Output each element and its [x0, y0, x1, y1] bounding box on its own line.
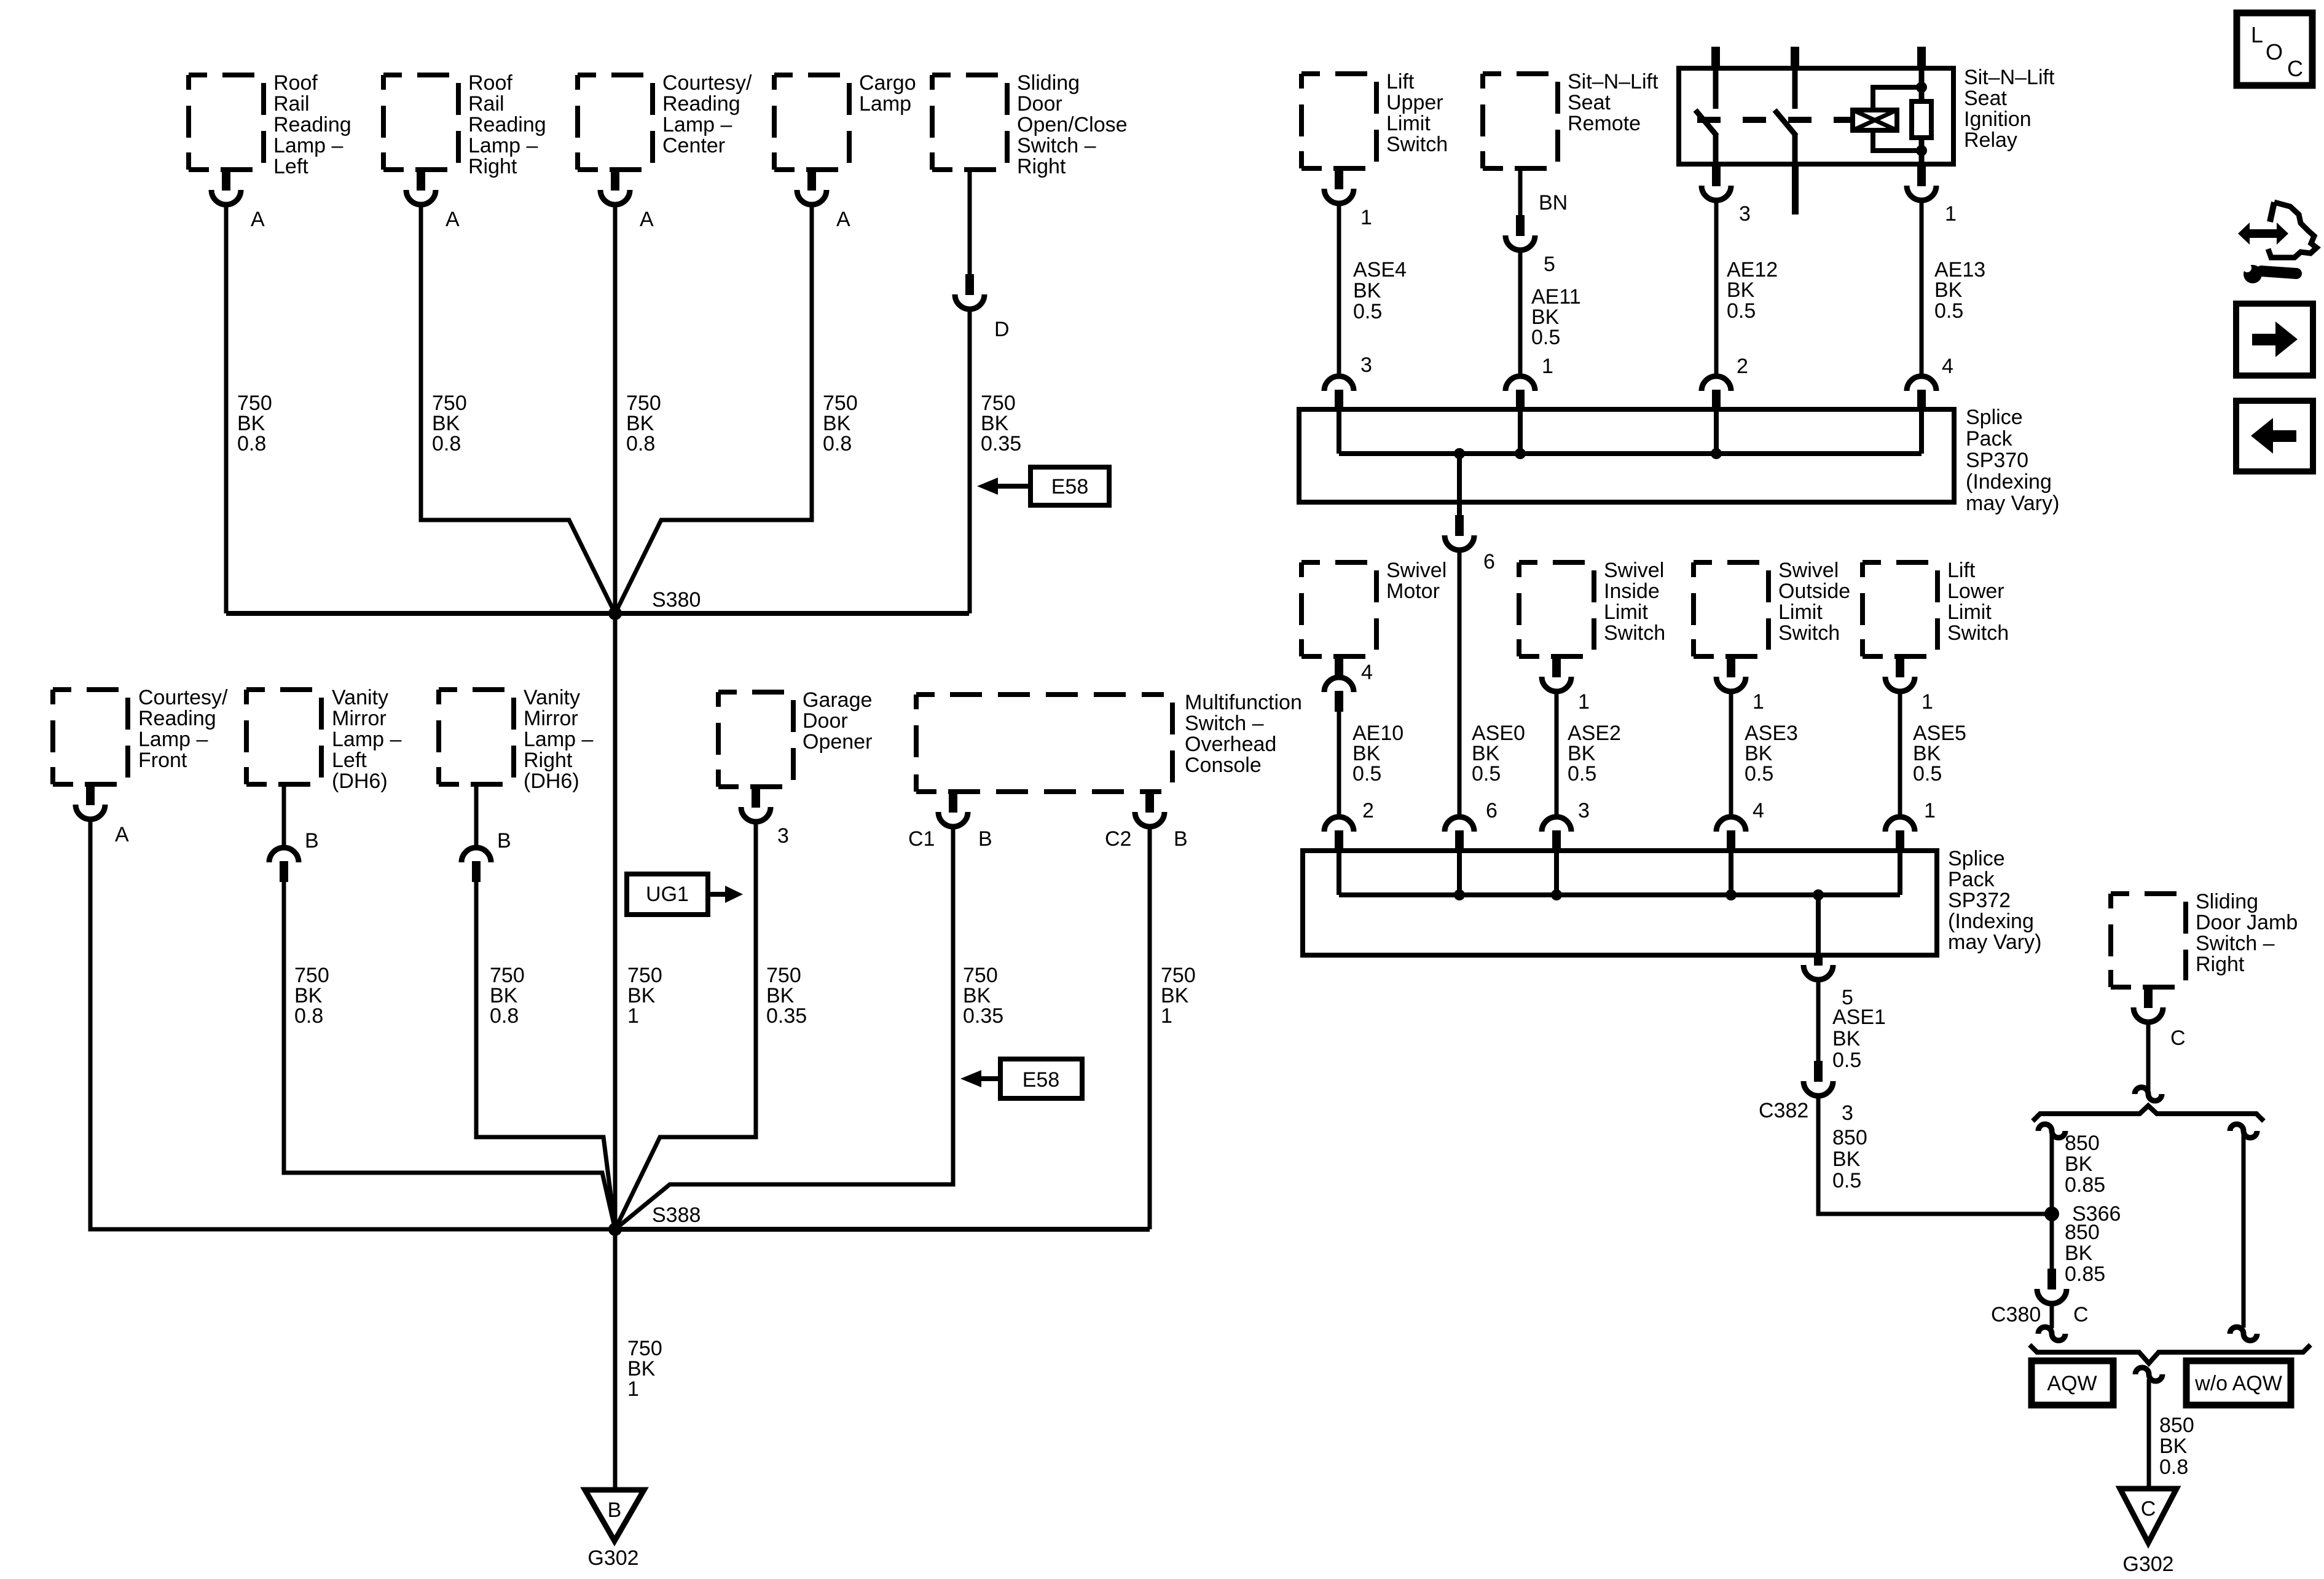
SP370 bus junction (output): [1454, 448, 1465, 459]
splice junction S388: [608, 1223, 622, 1236]
icon: wrench: [2244, 265, 2262, 283]
svg-text:BK: BK: [1934, 278, 1963, 302]
svg-text:Right: Right: [468, 155, 517, 178]
svg-text:Splice: Splice: [1948, 847, 2005, 870]
inline connector pin 5 on seat remote wire: [1516, 215, 1525, 236]
svg-text:C: C: [2141, 1497, 2156, 1521]
SP372 internal wire cavity 4: [1729, 851, 1733, 895]
svg-text:3: 3: [1360, 353, 1372, 377]
callout box E58 (top): [1030, 467, 1109, 505]
svg-text:Switch –: Switch –: [2196, 932, 2275, 955]
svg-text:850: 850: [2065, 1221, 2100, 1244]
svg-text:Overhead: Overhead: [1185, 733, 1276, 756]
svg-text:Seat: Seat: [1964, 87, 2007, 110]
svg-text:Right: Right: [2196, 953, 2245, 976]
svg-text:Door Jamb: Door Jamb: [2196, 911, 2298, 934]
wire 750 BK 0.8 from lamp right to S380: [421, 205, 615, 613]
wire ASE4 BK 0.5 from lift upper switch to SP370: [1337, 203, 1341, 376]
SP370 internal wire from cavity 4: [1919, 409, 1924, 454]
splice pack connector cavity 3 (ASE4 into SP370): [1324, 376, 1354, 391]
wire 750 BK 0.8 from lamp left down to S380 bus: [224, 205, 229, 613]
wire 850 BK 0.8 to ground G302: [2147, 1379, 2151, 1489]
svg-text:(Indexing: (Indexing: [1966, 470, 2052, 494]
wire 750 BK 0.35 from garage door opener to S388: [615, 822, 756, 1229]
svg-text:Switch –: Switch –: [1185, 712, 1264, 735]
bottom curly brace (wiring alternatives): [2030, 1345, 2310, 1363]
svg-text:Roof: Roof: [468, 71, 512, 95]
wire from vanity mirror lamp left to connector B: [282, 784, 286, 848]
connector pin 1 of Lift Upper Limit Switch: [1335, 168, 1343, 189]
svg-text:1: 1: [1578, 690, 1590, 714]
svg-text:C382: C382: [1759, 1099, 1808, 1122]
svg-text:1: 1: [1924, 799, 1936, 822]
svg-text:4: 4: [1361, 661, 1373, 684]
svg-text:BK: BK: [2159, 1435, 2188, 1458]
svg-text:Lamp –: Lamp –: [468, 134, 538, 157]
wire 750 BK 1 from C2 down to S388 bus: [1148, 827, 1152, 1229]
svg-text:B: B: [608, 1498, 622, 1522]
inline connector C382 pin 3: [1814, 1061, 1823, 1082]
svg-text:ASE1: ASE1: [1832, 1006, 1886, 1029]
svg-text:Mirror: Mirror: [332, 707, 387, 730]
svg-text:Motor: Motor: [1386, 580, 1440, 603]
svg-text:O: O: [2266, 39, 2283, 65]
svg-text:Lamp: Lamp: [859, 92, 911, 116]
callout arrow from UG1: [708, 892, 725, 897]
svg-text:Seat: Seat: [1568, 91, 1611, 114]
svg-text:B: B: [978, 827, 992, 851]
svg-text:Relay: Relay: [1964, 128, 2017, 152]
connector pin A of Roof Rail Reading Lamp - Right: [417, 170, 425, 191]
svg-text:Rail: Rail: [468, 92, 504, 116]
svg-text:0.35: 0.35: [963, 1004, 1003, 1028]
wire 750 BK 0.8 from vanity right connector to S388: [476, 882, 615, 1229]
relay connector pin 1: [1917, 165, 1926, 186]
svg-text:Left: Left: [332, 749, 367, 772]
svg-text:Switch: Switch: [1386, 133, 1448, 156]
wire AE10 BK 0.5 from swivel motor to SP372: [1337, 712, 1341, 817]
component box: Courtesy/Reading Lamp - Center: [578, 75, 653, 170]
component box: Multifunction Switch - Overhead Console: [916, 695, 1172, 792]
svg-text:(Indexing: (Indexing: [1948, 910, 2034, 933]
svg-text:1: 1: [627, 1377, 639, 1401]
svg-text:may Vary): may Vary): [1966, 492, 2059, 515]
connector pin 4 of Swivel Motor: [1335, 656, 1343, 679]
svg-text:1: 1: [1753, 690, 1764, 714]
wire AE13 BK 0.5 from relay pin 1 to SP370: [1920, 200, 1924, 376]
svg-text:Reading: Reading: [662, 92, 740, 116]
svg-text:Right: Right: [524, 749, 573, 772]
component box: Sit-N-Lift Seat Remote: [1483, 74, 1558, 168]
svg-text:1: 1: [1161, 1004, 1172, 1028]
svg-text:C: C: [2170, 1026, 2186, 1050]
connector pin A of Cargo Lamp: [807, 170, 816, 191]
relay switch contact 2: [1792, 68, 1798, 109]
svg-text:Vanity: Vanity: [524, 686, 580, 709]
inline connector pin 4 (swivel motor): [1324, 677, 1354, 692]
svg-text:A: A: [640, 208, 654, 231]
connector pin A of Roof Rail Reading Lamp - Left: [222, 170, 230, 191]
component box: Sliding Door Open/Close Switch - Right: [932, 75, 1007, 170]
svg-text:0.5: 0.5: [1745, 762, 1773, 786]
relay solenoid coil (crossed box): [1853, 110, 1897, 130]
svg-text:Upper: Upper: [1386, 91, 1443, 114]
svg-text:SP372: SP372: [1948, 889, 2011, 912]
svg-text:Splice: Splice: [1966, 406, 2023, 429]
svg-text:Sliding: Sliding: [2196, 890, 2258, 913]
svg-text:Switch: Switch: [1947, 621, 2009, 645]
SP370 internal bus: [1339, 451, 1922, 456]
wire start hook (below bottom brace): [2135, 1368, 2162, 1381]
svg-text:E58: E58: [1023, 1068, 1060, 1092]
svg-text:1: 1: [1542, 355, 1553, 378]
svg-text:5: 5: [1544, 253, 1555, 276]
icon box: arrow right (continued on next page): [2236, 304, 2313, 376]
connector pin 1 of Swivel Outside Limit Switch: [1727, 656, 1735, 677]
wire right branch (w/o AQW path): [2242, 1135, 2246, 1328]
svg-text:0.35: 0.35: [981, 432, 1021, 455]
svg-text:BK: BK: [2065, 1242, 2093, 1265]
callout arrow to E58 (bottom): [960, 1070, 981, 1087]
SP372 internal bus: [1339, 892, 1900, 897]
svg-text:Switch –: Switch –: [1017, 134, 1096, 157]
svg-text:2: 2: [1737, 355, 1748, 378]
wire from jamb switch connector down to brace: [2146, 1022, 2151, 1090]
relay pin stubs below box / middle pin: [1792, 164, 1799, 215]
relay coil wiring links: [1873, 87, 1922, 110]
wire from vanity mirror lamp right to connector B: [474, 784, 479, 848]
svg-text:G302: G302: [587, 1546, 638, 1570]
svg-text:0.8: 0.8: [490, 1004, 519, 1028]
svg-text:Swivel: Swivel: [1604, 559, 1664, 582]
svg-text:0.5: 0.5: [1934, 299, 1963, 323]
svg-text:BN: BN: [1539, 191, 1568, 215]
svg-text:Courtesy/: Courtesy/: [662, 71, 752, 95]
svg-text:A: A: [251, 208, 265, 231]
splice pack connector cavity 3 (ASE2 into SP372): [1542, 817, 1571, 832]
component box: Roof Rail Reading Lamp - Left: [189, 75, 264, 170]
svg-text:850: 850: [2065, 1132, 2100, 1155]
component box: Vanity Mirror Lamp - Right (DH6): [439, 690, 514, 784]
component box: Cargo Lamp: [774, 75, 849, 170]
svg-text:Lamp –: Lamp –: [332, 728, 401, 751]
component box: Roof Rail Reading Lamp - Right: [383, 75, 458, 170]
svg-text:1: 1: [1360, 206, 1372, 229]
svg-text:Lift: Lift: [1947, 559, 1976, 582]
splice junction S366: [2044, 1207, 2059, 1221]
callout box E58 (bottom): [1000, 1059, 1082, 1098]
svg-text:Reading: Reading: [138, 707, 216, 730]
svg-text:0.8: 0.8: [823, 432, 852, 455]
ground symbol G302 (left): [585, 1490, 644, 1541]
connector pin C of Sliding Door Jamb Switch: [2144, 987, 2153, 1008]
svg-text:C: C: [2287, 56, 2303, 81]
svg-text:Door: Door: [803, 709, 848, 733]
svg-text:S380: S380: [652, 588, 701, 612]
wire 750 BK 0.35 from C1 to S388: [615, 827, 953, 1229]
svg-text:Right: Right: [1017, 155, 1066, 178]
svg-text:4: 4: [1942, 355, 1953, 378]
component box: Swivel Inside Limit Switch: [1519, 562, 1594, 656]
svg-text:Multifunction: Multifunction: [1185, 691, 1302, 714]
ground symbol G302 (right): [2120, 1489, 2177, 1543]
svg-text:Limit: Limit: [1604, 600, 1648, 624]
svg-text:2: 2: [1362, 799, 1374, 822]
svg-text:0.8: 0.8: [626, 432, 655, 455]
svg-text:0.5: 0.5: [1727, 299, 1756, 323]
SP370 output wire to cavity 6: [1457, 454, 1462, 515]
wire AE12 BK 0.5 from relay pin 3 to SP370: [1714, 200, 1719, 376]
svg-text:Ignition: Ignition: [1964, 108, 2032, 131]
relay mechanical linkage (dashed): [1697, 117, 1853, 123]
svg-text:Courtesy/: Courtesy/: [138, 686, 228, 709]
component box: Swivel Motor: [1301, 562, 1376, 656]
wire 750 BK 0.8 from cargo lamp to S380: [615, 205, 812, 613]
wire from front lamp connector to S388 junction: [90, 818, 615, 1229]
svg-text:BK: BK: [1727, 278, 1755, 302]
wire start hook (left branch): [2038, 1124, 2065, 1138]
svg-text:G302: G302: [2122, 1553, 2173, 1576]
trunk wire 750 BK 1 from S380 to S388: [613, 613, 618, 1229]
svg-text:Inside: Inside: [1604, 580, 1660, 603]
component box: Swivel Outside Limit Switch: [1694, 562, 1769, 656]
wire AE11 BK 0.5 from seat remote to SP370: [1518, 250, 1523, 376]
svg-text:1: 1: [1922, 690, 1933, 714]
wire ASE5 BK 0.5 from lift lower switch to SP372: [1898, 691, 1902, 817]
svg-text:UG1: UG1: [646, 883, 689, 906]
svg-text:0.8: 0.8: [432, 432, 461, 455]
SP370 bus junction (cavity 1): [1515, 448, 1526, 459]
svg-text:Swivel: Swivel: [1386, 559, 1447, 582]
SP370 internal wire from cavity 3: [1337, 409, 1341, 454]
SP370 output connector cavity 6: [1455, 515, 1464, 536]
svg-text:S388: S388: [652, 1203, 701, 1227]
svg-text:A: A: [115, 823, 129, 846]
svg-text:Remote: Remote: [1568, 112, 1641, 135]
wire ASE2 BK 0.5 from swivel inside switch to SP372: [1555, 691, 1559, 817]
wire from C380 to bottom brace: [2050, 1304, 2054, 1328]
callout arrow to E58 (top): [977, 478, 998, 495]
svg-text:Swivel: Swivel: [1778, 559, 1839, 582]
svg-text:Open/Close: Open/Close: [1017, 113, 1128, 136]
svg-text:B: B: [497, 829, 511, 853]
trunk wire 750 BK 1 from S388 to ground G302: [613, 1229, 618, 1490]
SP372 bus junction (cavity 6): [1454, 889, 1465, 900]
svg-text:0.5: 0.5: [1353, 300, 1382, 323]
wire start hook (right branch): [2230, 1124, 2257, 1138]
wire 850 BK 0.5 from C382 to S366: [1818, 1096, 2052, 1214]
inline connector B on vanity right wire: [461, 848, 491, 862]
component box: Sliding Door Jamb Switch - Right: [2111, 894, 2186, 987]
connector pin 1 of Swivel Inside Limit Switch: [1552, 656, 1561, 677]
splice pack connector cavity 6 (ASE0 into SP372): [1445, 817, 1474, 832]
component box: Sit-N-Lift Seat Ignition Relay: [1679, 68, 1953, 164]
svg-text:A: A: [836, 208, 850, 231]
svg-text:C1: C1: [908, 827, 935, 851]
svg-text:Garage: Garage: [803, 688, 872, 712]
connector pin 3 of Garage Door Opener: [752, 787, 760, 808]
splice junction S380: [608, 607, 622, 620]
wire ASE1 BK 0.5 from SP372 to C382: [1816, 980, 1821, 1061]
svg-text:BK: BK: [1832, 1148, 1861, 1171]
svg-text:3: 3: [1578, 799, 1590, 822]
icon: hand outline (page-turn arrow): [2270, 202, 2274, 222]
callout box UG1: [627, 874, 708, 915]
wire from sliding door switch down to connector D: [968, 170, 972, 274]
relay resistor: [1912, 101, 1931, 138]
splice pack SP370 box: [1299, 409, 1954, 502]
SP370 internal wire from cavity 1: [1518, 409, 1523, 454]
relay pin stubs above box: [1711, 47, 1720, 69]
svg-text:0.5: 0.5: [1832, 1049, 1861, 1072]
svg-text:0.8: 0.8: [237, 432, 266, 455]
svg-text:BK: BK: [1353, 279, 1381, 302]
svg-text:Cargo: Cargo: [859, 71, 916, 95]
SP372 internal wire cavity 3: [1554, 851, 1559, 895]
svg-text:Pack: Pack: [1948, 868, 1995, 891]
svg-text:0.35: 0.35: [766, 1004, 807, 1028]
connector C2 pin B of multifunction switch: [1145, 792, 1154, 813]
svg-text:4: 4: [1753, 799, 1764, 822]
SP372 internal wire cavity 1: [1898, 851, 1902, 895]
svg-text:Pack: Pack: [1966, 427, 2013, 451]
connector pin 1 of Lift Lower Limit Switch: [1896, 656, 1904, 677]
svg-text:Limit: Limit: [1386, 112, 1431, 135]
splice pack connector cavity 4 (AE13 into SP370): [1907, 376, 1936, 391]
svg-text:w/o AQW: w/o AQW: [2194, 1372, 2282, 1395]
svg-text:C2: C2: [1105, 827, 1131, 851]
svg-text:BK: BK: [1832, 1027, 1861, 1050]
wire 750 BK 0.35 from connector D down to S380 bus: [968, 308, 972, 613]
svg-text:6: 6: [1483, 550, 1495, 573]
inline connector B on vanity left wire: [269, 848, 299, 862]
svg-text:Lamp –: Lamp –: [138, 728, 208, 751]
svg-text:A: A: [446, 208, 460, 231]
wire end hook (jamb switch wire): [2135, 1087, 2162, 1101]
svg-text:0.5: 0.5: [1832, 1169, 1861, 1192]
component box: Lift Upper Limit Switch: [1301, 74, 1376, 168]
splice pack connector cavity 4 (ASE3 into SP372): [1716, 817, 1746, 832]
svg-text:1: 1: [627, 1004, 639, 1028]
svg-text:Sit–N–Lift: Sit–N–Lift: [1568, 70, 1659, 93]
wire BN from seat remote to connector: [1518, 168, 1523, 215]
svg-text:Center: Center: [662, 134, 725, 157]
svg-text:Sit–N–Lift: Sit–N–Lift: [1964, 66, 2055, 89]
icon box: arrow left (continued from previous page): [2236, 401, 2313, 471]
svg-text:Limit: Limit: [1778, 600, 1823, 624]
svg-text:0.5: 0.5: [1913, 762, 1942, 786]
svg-text:0.5: 0.5: [1568, 762, 1596, 786]
wire end hook (left branch bottom): [2038, 1327, 2065, 1341]
svg-text:Outside: Outside: [1778, 580, 1850, 603]
svg-text:Reading: Reading: [468, 113, 546, 136]
svg-text:0.85: 0.85: [2065, 1262, 2105, 1286]
svg-text:850: 850: [2159, 1414, 2194, 1437]
connector pin A of Courtesy/Reading Lamp - Front: [86, 784, 95, 805]
splice pack SP372 box: [1303, 851, 1937, 955]
wire 750 BK 0.8 from center lamp down to S380: [613, 205, 618, 613]
SP370 internal wire from cavity 2: [1714, 409, 1719, 454]
svg-text:3: 3: [1739, 202, 1751, 226]
svg-text:SP370: SP370: [1966, 449, 2028, 472]
svg-text:Vanity: Vanity: [332, 686, 388, 709]
splice pack connector cavity 1 (ASE5 into SP372): [1885, 817, 1915, 832]
svg-text:BK: BK: [2065, 1152, 2093, 1176]
svg-text:0.5: 0.5: [1531, 326, 1560, 349]
connector C1 pin B of multifunction switch: [949, 792, 957, 813]
splice pack connector cavity 2 (AE12 into SP370): [1702, 376, 1731, 391]
connector pin A of Courtesy/Reading Lamp - Center: [611, 170, 619, 191]
svg-text:Lamp –: Lamp –: [524, 728, 593, 751]
svg-text:0.85: 0.85: [2065, 1173, 2105, 1197]
svg-text:AQW: AQW: [2047, 1372, 2097, 1395]
svg-text:L: L: [2251, 22, 2263, 47]
component box: Garage Door Opener: [718, 692, 793, 787]
svg-text:Lift: Lift: [1386, 70, 1415, 93]
svg-text:B: B: [1174, 827, 1188, 851]
splice pack connector cavity 1 (AE11 into SP370): [1505, 376, 1535, 391]
svg-text:0.5: 0.5: [1472, 762, 1501, 786]
svg-text:1: 1: [1945, 202, 1957, 226]
SP372 output internal wire: [1816, 895, 1821, 955]
splice pack connector cavity 2 (AE10 into SP372): [1324, 817, 1354, 832]
svg-text:B: B: [305, 829, 319, 853]
svg-text:850: 850: [1832, 1126, 1867, 1149]
svg-text:3: 3: [1842, 1101, 1853, 1125]
svg-text:3: 3: [777, 824, 789, 848]
SP372 bus junction (output): [1813, 889, 1824, 900]
svg-text:Switch: Switch: [1778, 621, 1840, 645]
svg-text:Left: Left: [273, 155, 308, 178]
top curly brace (wiring alternatives): [2033, 1106, 2264, 1121]
svg-text:ASE4: ASE4: [1353, 258, 1407, 282]
relay switch contact 1: [1713, 68, 1719, 109]
svg-text:Reading: Reading: [273, 113, 351, 136]
svg-text:Front: Front: [138, 749, 187, 772]
legend box LOC: [2237, 13, 2312, 85]
svg-text:Rail: Rail: [273, 92, 310, 116]
SP372 internal wire cavity 6: [1457, 851, 1462, 895]
relay pin 1 internal wire: [1919, 68, 1925, 164]
option tag box w/o AQW: [2186, 1361, 2291, 1405]
svg-text:Lamp –: Lamp –: [662, 113, 732, 136]
component box: Courtesy/Reading Lamp - Front: [53, 690, 128, 784]
svg-text:Limit: Limit: [1947, 600, 1992, 624]
svg-text:0.5: 0.5: [1352, 762, 1381, 786]
inline connector D on sliding door switch wire: [965, 274, 974, 295]
svg-text:(DH6): (DH6): [332, 770, 388, 793]
wire 850 BK 0.85 from S366 to C380: [2050, 1214, 2054, 1269]
svg-text:Door: Door: [1017, 92, 1062, 116]
svg-text:C: C: [2073, 1303, 2089, 1326]
SP372 bus junction (cavity 4): [1725, 889, 1737, 900]
wire end hook (right branch bottom): [2230, 1327, 2257, 1341]
option tag box AQW: [2032, 1361, 2113, 1405]
icon: double-headed arrow (navigation): [2238, 222, 2288, 245]
SP372 internal wire cavity 2: [1337, 851, 1341, 895]
svg-text:Switch: Switch: [1604, 621, 1665, 645]
component box: Lift Lower Limit Switch: [1863, 562, 1937, 656]
wire ASE0 BK 0.5 from SP370 to SP372: [1458, 550, 1462, 817]
svg-text:C380: C380: [1991, 1303, 2041, 1326]
svg-text:may Vary): may Vary): [1948, 931, 2041, 954]
wire 850 BK 0.85 from brace to S366: [2050, 1135, 2054, 1214]
svg-text:Roof: Roof: [273, 71, 318, 95]
SP372 bus junction (cavity 3): [1551, 889, 1562, 900]
svg-text:0.8: 0.8: [2159, 1455, 2188, 1479]
svg-text:Opener: Opener: [803, 730, 872, 754]
inline connector C380 pin C: [2047, 1269, 2056, 1290]
